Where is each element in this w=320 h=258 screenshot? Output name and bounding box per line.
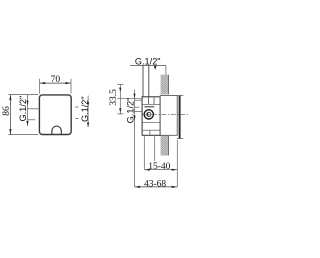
dim 43-68 arrow left — [135, 186, 141, 188]
dim 43-68 line — [135, 186, 177, 188]
top G.1/2 shelf — [130, 64, 166, 66]
left G.1/2 tick upper — [28, 108, 40, 110]
dim 15-40 arrow right — [172, 169, 178, 171]
dim 86 extension line top — [8, 94, 38, 96]
ext line wall surface — [176, 140, 178, 187]
svg-text:G.1/2": G.1/2" — [135, 56, 161, 66]
svg-text:43-68: 43-68 — [144, 180, 166, 190]
right G.1/2 dash lower — [75, 118, 78, 120]
dim 86 arrow top — [9, 95, 11, 101]
wall hatch top right edge — [168, 75, 170, 95]
svg-text:15-40: 15-40 — [148, 162, 170, 172]
dim 70 arrow right — [65, 82, 71, 84]
housing block — [160, 96, 177, 136]
side G.1/2 leader line — [134, 89, 136, 186]
dim 33.5 bottom tick — [117, 113, 123, 115]
dim 86 line — [9, 95, 11, 134]
handle notch — [52, 126, 61, 134]
valve body — [142, 97, 160, 136]
body top inner line 1 — [142, 103, 160, 105]
left G.1/2 leader line — [27, 95, 29, 126]
side G.1/2 tick 2 — [135, 106, 140, 108]
dim 33.5 top tick — [117, 83, 123, 85]
side G.1/2 arrow upper — [133, 94, 135, 99]
svg-text:33.5: 33.5 — [109, 89, 119, 106]
finished wall top tick — [177, 95, 183, 97]
dim 33.5 upper arrow — [119, 88, 121, 93]
cartridge dot — [147, 113, 148, 117]
body port bore right — [153, 97, 155, 105]
right G.1/2 arrow lower — [87, 123, 89, 128]
dim 33.5 lower arrow — [119, 108, 121, 113]
dim 70 arrow left — [40, 82, 46, 84]
finished wall bold line — [179, 95, 181, 138]
finished wall bottom tick — [177, 138, 183, 140]
ext line body front (15-40) — [143, 136, 145, 169]
plate outline — [39, 95, 71, 135]
svg-text:G.1/2": G.1/2" — [18, 96, 28, 122]
ext line mid — [154, 136, 156, 161]
dim 15-40 line — [145, 169, 178, 171]
right G.1/2 dash upper — [75, 106, 78, 108]
dim 43-68 arrow right — [172, 186, 178, 188]
riser pipe right wall — [148, 65, 150, 96]
side G.1/2 tick 3 — [135, 111, 142, 113]
port centerline tick — [117, 97, 142, 99]
dim 70 line — [40, 82, 71, 84]
dim 70 extension line right — [70, 79, 72, 94]
body inner line 4 — [142, 129, 160, 131]
cartridge outer circle — [144, 110, 153, 119]
top G.1/2 arrow — [154, 66, 157, 70]
dim 86 extension line bottom — [8, 134, 38, 136]
dim 70 extension line left — [39, 79, 41, 94]
dim 86 arrow bottom — [9, 129, 11, 135]
body inner vertical — [149, 130, 151, 135]
dim 33.5 line — [119, 84, 121, 114]
body inner line 3 — [142, 121, 160, 123]
riser pipe left wall — [142, 65, 144, 96]
left G.1/2 tick lower — [28, 119, 36, 121]
dim 15-40 arrow left — [144, 169, 150, 171]
wall hatch top — [161, 75, 169, 95]
left G.1/2 arrow lower — [26, 121, 28, 126]
right G.1/2 arrow upper — [87, 102, 89, 107]
wall hatch bottom right edge — [168, 136, 170, 156]
svg-text:70: 70 — [51, 75, 61, 85]
side G.1/2 arrow lower — [133, 116, 135, 121]
axis centerline — [143, 113, 189, 115]
svg-text:86: 86 — [2, 106, 12, 116]
cartridge inner circle — [147, 112, 151, 116]
body top inner line 2 — [144, 106, 154, 108]
wall hatch bottom — [161, 136, 169, 156]
right G.1/2 leader line — [87, 96, 89, 128]
left G.1/2 arrow upper — [26, 101, 28, 106]
side G.1/2 tick 1 — [135, 99, 142, 101]
body port bore left — [148, 97, 150, 105]
svg-text:G.1/2": G.1/2" — [126, 98, 136, 124]
top G.1/2 drop line — [165, 65, 167, 74]
